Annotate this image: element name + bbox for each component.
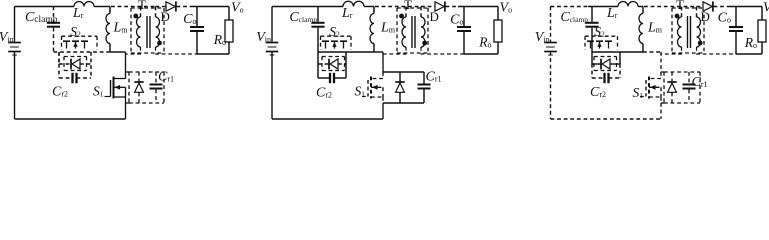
svg-text:D: D (701, 9, 710, 24)
svg-text:T: T (676, 0, 684, 12)
svg-text:Vo: Vo (763, 1, 769, 16)
svg-text:D: D (161, 9, 170, 24)
svg-text:T: T (138, 0, 146, 12)
svg-text:T: T (404, 0, 412, 12)
svg-text:D: D (430, 9, 439, 24)
